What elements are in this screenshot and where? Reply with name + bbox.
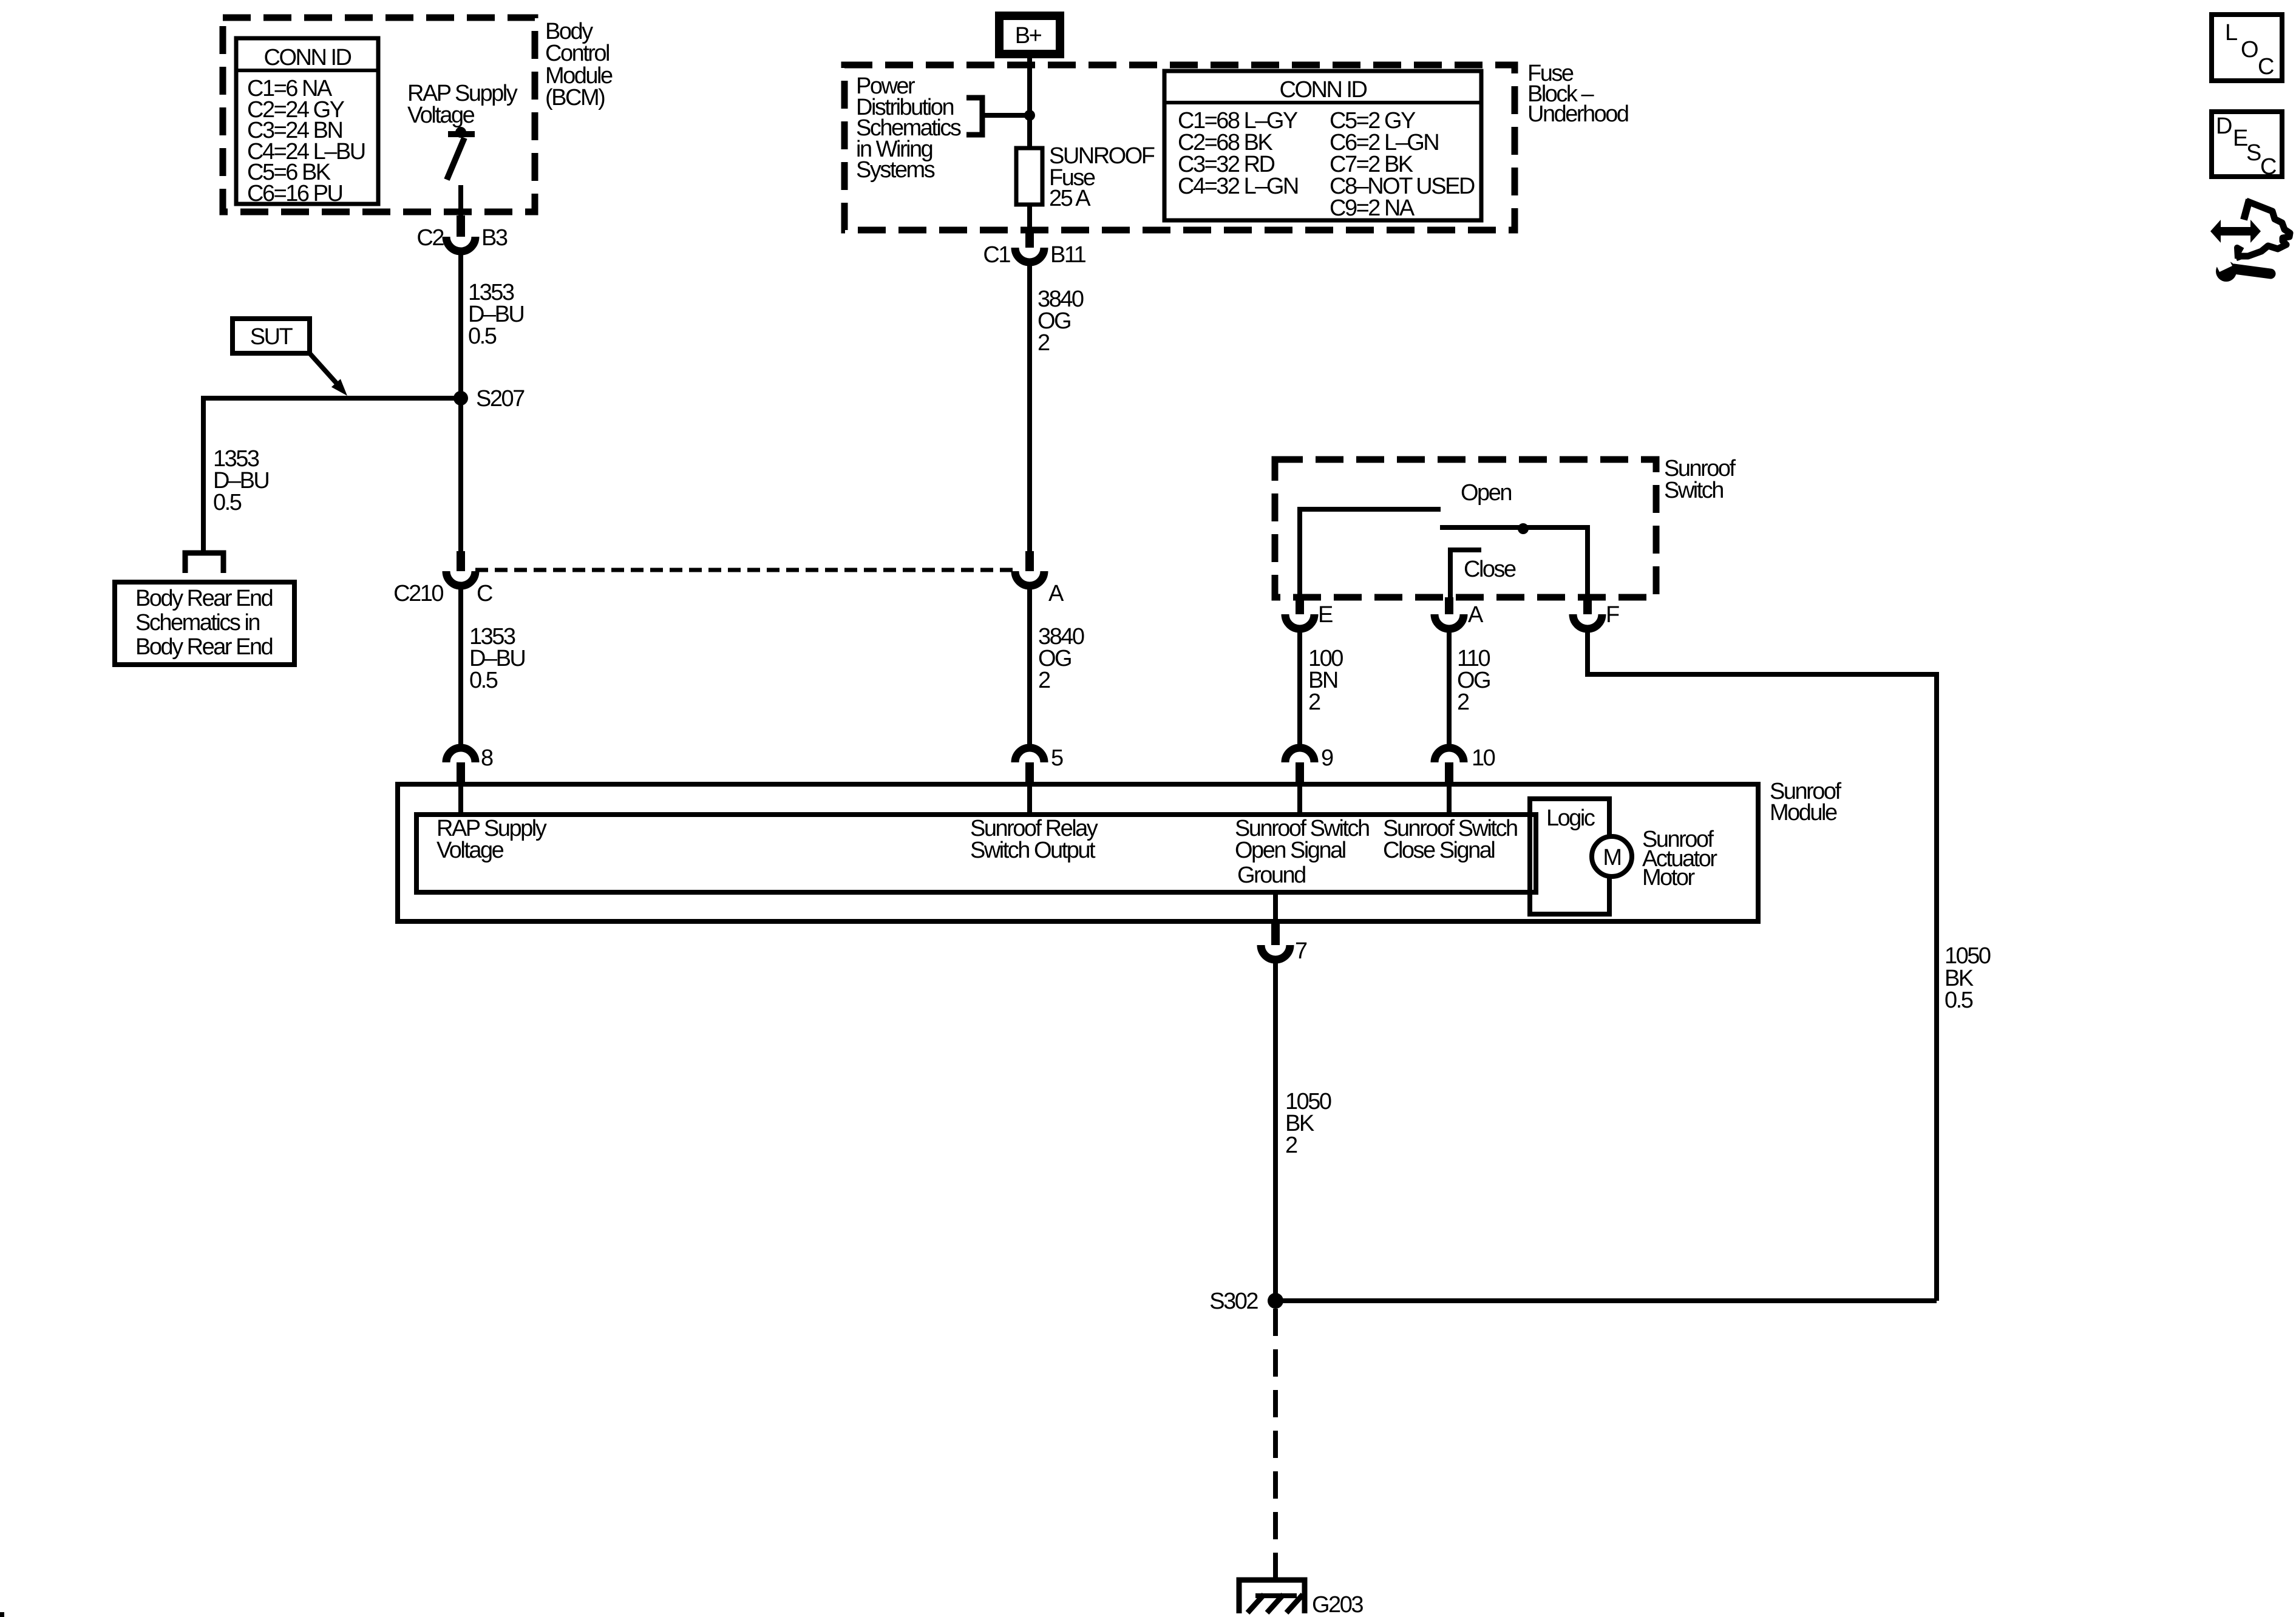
svg-text:F: F: [1606, 602, 1619, 628]
svg-text:S302: S302: [1209, 1289, 1258, 1314]
SUT arrow: [310, 353, 336, 383]
wire BCM switch to connector C2: [458, 185, 463, 217]
BCM dashed box (Body Control Module): [223, 18, 535, 212]
svg-text:C: C: [477, 581, 492, 606]
svg-text:B+: B+: [1015, 23, 1042, 49]
svg-text:0.5: 0.5: [469, 668, 498, 693]
wire 110 OG from A to pin 10: [1447, 629, 1452, 748]
svg-text:O: O: [2241, 37, 2258, 63]
SUT callout box: [233, 319, 310, 353]
svg-text:Voltage: Voltage: [436, 838, 504, 863]
LOC icon box: [2212, 15, 2282, 81]
svg-text:Schematics in: Schematics in: [135, 610, 259, 636]
RAP supply switch symbol: [448, 131, 475, 137]
svg-text:S: S: [2246, 140, 2261, 166]
svg-text:C: C: [2260, 154, 2276, 180]
svg-text:0.5: 0.5: [468, 324, 497, 349]
svg-text:2: 2: [1038, 330, 1050, 356]
svg-text:Systems: Systems: [856, 157, 935, 183]
pin 9 connector: [1285, 748, 1314, 762]
wire 1050 BK from pin 7 to S302: [1273, 960, 1278, 1293]
wire 100 BN from E to pin 9: [1297, 629, 1302, 748]
svg-text:2: 2: [1038, 668, 1050, 693]
svg-text:C210: C210: [393, 581, 443, 606]
connector C1/B11 stub: [1025, 230, 1034, 248]
svg-text:Close: Close: [1464, 557, 1516, 582]
svg-text:9: 9: [1321, 745, 1333, 771]
svg-text:25 A: 25 A: [1049, 186, 1091, 211]
wire 1050 BK 0.5 from F to S302: [1588, 629, 1937, 1301]
svg-text:2: 2: [1285, 1133, 1297, 1158]
svg-text:C4=32 L–GN: C4=32 L–GN: [1178, 174, 1298, 199]
svg-text:M: M: [1603, 845, 1620, 870]
pin 7 connector: [1271, 921, 1280, 945]
svg-text:Motor: Motor: [1642, 865, 1695, 890]
Sunroof Module box: [398, 784, 1758, 921]
svg-text:Switch Output: Switch Output: [970, 838, 1096, 863]
svg-text:C: C: [2258, 54, 2274, 80]
svg-text:8: 8: [481, 745, 493, 771]
wire pin9 into module: [1297, 785, 1302, 815]
dashed wire S302 to G203: [1273, 1309, 1278, 1596]
svg-text:L: L: [2225, 20, 2237, 46]
switch Open contact: [1300, 509, 1441, 597]
off-page connector to Body Rear End: [185, 553, 223, 573]
connector A (switch): [1435, 614, 1464, 629]
connector A stub (inline): [1025, 551, 1034, 571]
connector C210/C: [446, 571, 475, 586]
wire 1353 D-BU from B3 to S207: [458, 251, 463, 551]
dashed wire C210 to A: [475, 568, 1015, 572]
wire C210 to pin 8: [458, 586, 463, 748]
page corner mark: [0, 1612, 4, 1617]
svg-text:Open: Open: [1461, 480, 1511, 506]
pin 10 connector: [1435, 748, 1464, 762]
motor M circle: [1592, 836, 1632, 876]
svg-text:Voltage: Voltage: [407, 103, 475, 128]
svg-text:C2: C2: [416, 225, 444, 251]
DESC icon box: [2212, 112, 2282, 177]
svg-text:2: 2: [1308, 690, 1320, 715]
svg-text:A: A: [1468, 602, 1484, 628]
switch common pole to F: [1440, 527, 1588, 597]
svg-text:D: D: [2216, 114, 2232, 139]
svg-text:0.5: 0.5: [213, 490, 242, 515]
hand with double arrow icon: [2244, 200, 2249, 220]
splice S207: [453, 391, 468, 405]
ground wire inside module: [1273, 892, 1278, 921]
junction dot power distribution: [1024, 110, 1035, 121]
connector E: [1285, 614, 1314, 629]
connector C1/B11: [1015, 248, 1044, 262]
switch Close contact: [1450, 550, 1481, 597]
svg-text:CONN ID: CONN ID: [1280, 77, 1367, 103]
svg-text:0.5: 0.5: [1944, 988, 1973, 1013]
svg-text:S207: S207: [476, 386, 525, 412]
svg-text:B3: B3: [481, 225, 508, 251]
Sunroof Switch dashed box: [1275, 459, 1656, 597]
SUNROOF fuse 25A: [1016, 148, 1042, 205]
connector C210 stub: [457, 551, 465, 571]
svg-text:Ground: Ground: [1237, 863, 1305, 888]
svg-text:Module: Module: [1770, 800, 1837, 825]
connector F stub: [1583, 597, 1592, 614]
svg-text:5: 5: [1051, 745, 1063, 771]
svg-text:G203: G203: [1312, 1592, 1363, 1617]
svg-text:C6=16 PU: C6=16 PU: [247, 181, 342, 206]
pin 8 connector: [446, 748, 475, 762]
svg-text:(BCM): (BCM): [545, 85, 605, 110]
ground G203 symbol: [1239, 1580, 1305, 1613]
wrench icon: [2216, 261, 2237, 282]
Fuse block CONN ID table: [1164, 71, 1481, 220]
wire A to pin 5: [1027, 586, 1032, 748]
wire S302 to right riser: [1275, 1298, 1937, 1303]
svg-text:Close Signal: Close Signal: [1383, 838, 1494, 863]
svg-text:A: A: [1048, 581, 1064, 606]
svg-text:SUT: SUT: [250, 324, 293, 350]
svg-text:Underhood: Underhood: [1527, 101, 1628, 127]
svg-text:1050: 1050: [1944, 943, 1991, 969]
connector C2/B3: [446, 237, 475, 251]
B+ power symbol: [999, 16, 1060, 54]
svg-text:2: 2: [1457, 690, 1469, 715]
wire pin5 into module: [1027, 785, 1032, 815]
connector E stub: [1296, 597, 1304, 614]
wire 3840 OG from B11 to A: [1027, 262, 1032, 551]
svg-text:B11: B11: [1050, 242, 1086, 268]
Logic box: [1530, 799, 1609, 914]
bracket from Power Distribution to wire: [966, 98, 982, 135]
svg-text:CONN ID: CONN ID: [264, 45, 352, 70]
wire pin10 into module: [1447, 785, 1452, 815]
svg-text:C9=2 NA: C9=2 NA: [1330, 195, 1415, 221]
wire pin8 into module: [458, 785, 463, 815]
svg-text:C1: C1: [983, 242, 1010, 268]
BCM CONN ID table box: [236, 38, 378, 204]
Sunroof Module inner signal box: [416, 815, 1536, 892]
svg-text:Switch: Switch: [1664, 478, 1723, 503]
connector F: [1573, 614, 1602, 629]
svg-text:E: E: [1318, 602, 1333, 628]
svg-text:7: 7: [1295, 938, 1307, 964]
splice S302: [1268, 1293, 1283, 1309]
connector A (inline): [1015, 571, 1044, 586]
svg-text:Control: Control: [545, 41, 609, 66]
Body Rear End reference box: [115, 582, 294, 665]
wire S207 branch left: [203, 398, 461, 551]
svg-text:10: 10: [1472, 745, 1495, 771]
svg-text:Open Signal: Open Signal: [1235, 838, 1345, 863]
junction dot on common pole: [1518, 523, 1529, 534]
svg-text:Logic: Logic: [1546, 805, 1595, 831]
Fuse block dashed box: [844, 65, 1515, 230]
svg-text:Body Rear End: Body Rear End: [135, 634, 273, 660]
wire B+ down through fuse: [1027, 54, 1032, 230]
svg-text:Body Rear End: Body Rear End: [135, 586, 273, 611]
pin 5 connector: [1015, 748, 1044, 762]
svg-text:E: E: [2233, 126, 2247, 151]
connector A (switch) stub: [1445, 597, 1453, 614]
